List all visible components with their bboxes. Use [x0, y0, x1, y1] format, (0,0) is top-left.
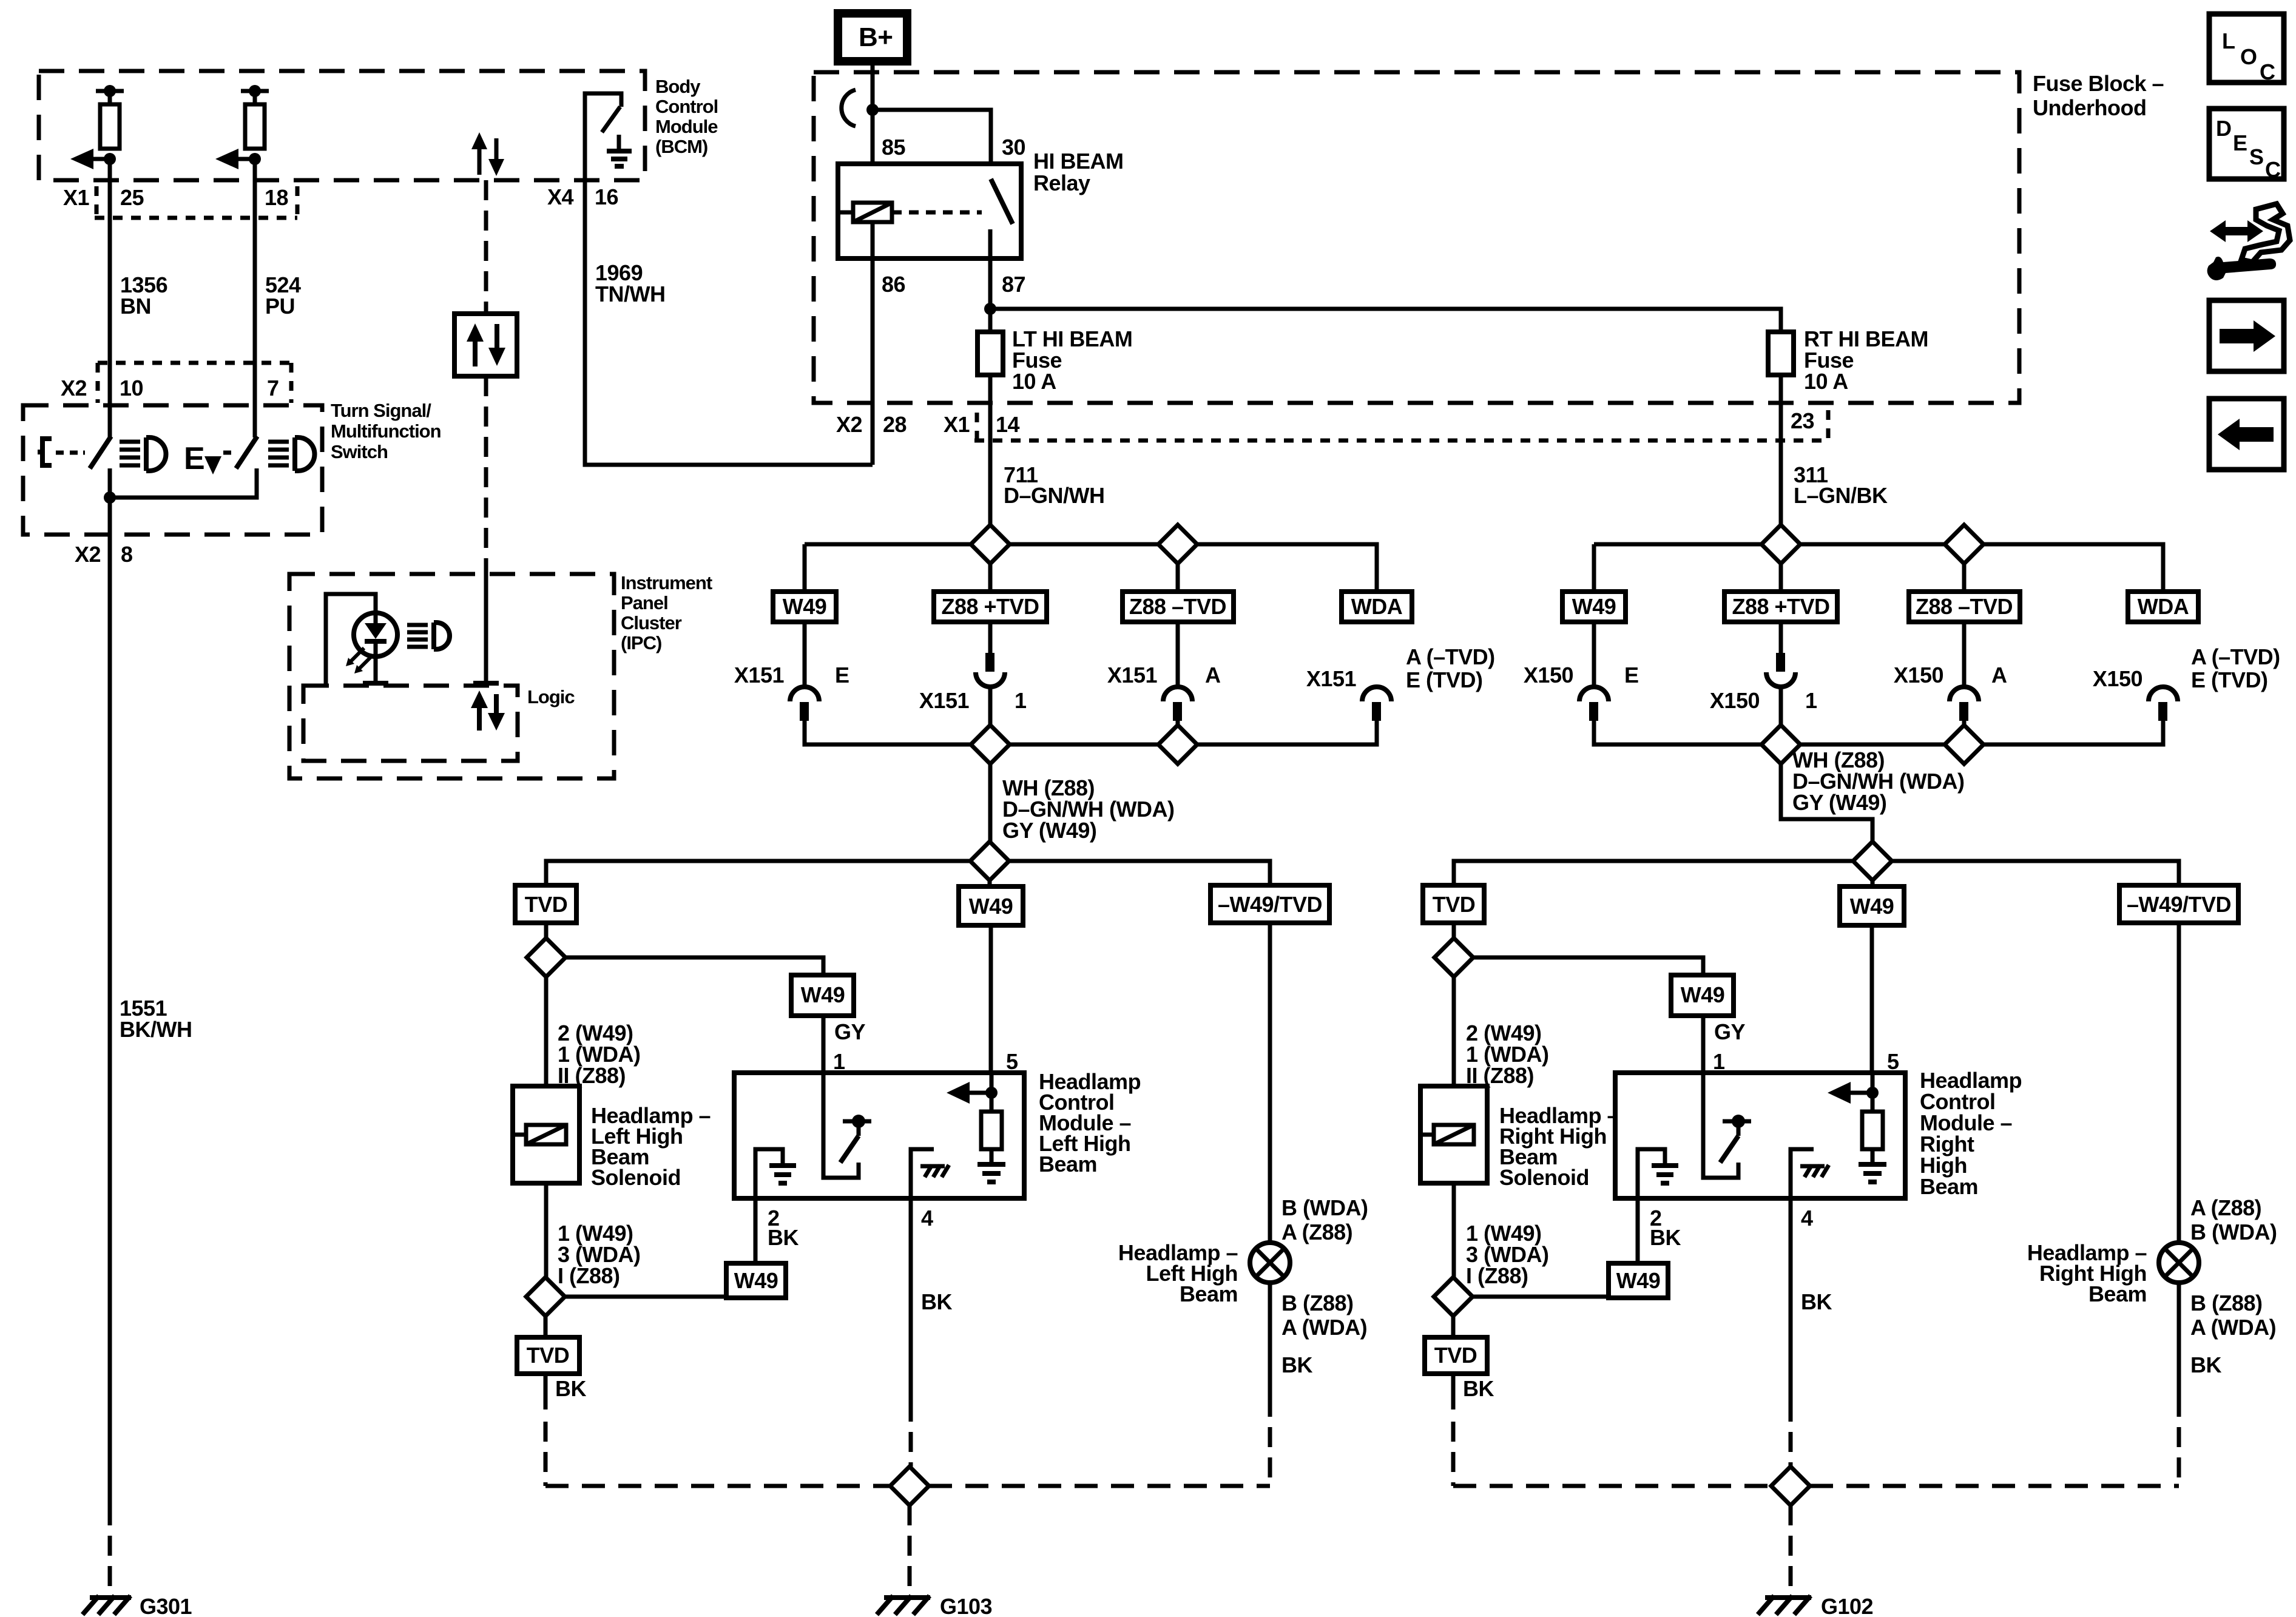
svg-text:B+: B+: [859, 22, 893, 52]
LT HI BEAM fuse: [977, 326, 1132, 394]
svg-text:Beam: Beam: [1920, 1174, 1978, 1199]
svg-text:Z88 +TVD: Z88 +TVD: [941, 594, 1039, 619]
svg-text:BK: BK: [1463, 1376, 1494, 1401]
resistor (BCM pin 18 pull-up): [241, 85, 269, 149]
svg-text:D–GN/WH: D–GN/WH: [1004, 483, 1105, 508]
svg-text:Panel: Panel: [621, 592, 668, 613]
wire W49 to module pin 1 right: [1701, 1016, 1706, 1073]
svg-text:85: 85: [882, 135, 906, 160]
bus wires lower: [805, 721, 1377, 744]
bus wires upper: [1594, 544, 2163, 622]
bus3 right: [1454, 861, 2179, 885]
bus wires upper: [805, 544, 1377, 622]
B+ feed box: [838, 13, 907, 61]
svg-text:W49: W49: [969, 894, 1013, 919]
wire -W49/TVD to lamp right: [2177, 923, 2181, 1243]
in-line connector X150-A: [1894, 663, 2007, 744]
switch blade 1 (high beam switch): [90, 436, 111, 498]
wire relay 87 down with splice: [984, 258, 996, 332]
svg-text:87: 87: [1002, 272, 1025, 297]
svg-text:D: D: [2216, 116, 2232, 141]
Fuse Block - Underhood dashed box: [814, 72, 2019, 403]
dashed link to switch 1: [56, 451, 85, 455]
svg-text:Relay: Relay: [1033, 170, 1090, 195]
svg-text:E: E: [184, 441, 205, 476]
svg-text:E: E: [835, 663, 849, 687]
wire solenoid down right: [1452, 1183, 1456, 1277]
Headlamp Right High Beam Solenoid box: [1420, 1086, 1487, 1183]
BCM label: [655, 76, 718, 157]
svg-text:A: A: [1205, 663, 1221, 687]
svg-text:BK: BK: [555, 1376, 586, 1401]
splice diamond G103 bus: [890, 1467, 929, 1505]
net box Z88 +TVD: [934, 592, 1047, 622]
svg-text:A (–TVD): A (–TVD): [2191, 644, 2280, 669]
svg-text:Cluster: Cluster: [621, 612, 682, 633]
boxed up-down arrow connector symbol: [454, 314, 517, 376]
label A (Z88) / B (WDA) right: [2190, 1195, 2277, 1244]
module label left: [1039, 1069, 1141, 1176]
switch blade 2 (flash switch): [236, 436, 257, 498]
svg-text:X151: X151: [1107, 663, 1158, 687]
svg-text:Module: Module: [655, 116, 718, 137]
svg-text:–W49/TVD: –W49/TVD: [2127, 892, 2231, 917]
arrow (BCM output pin 25): [70, 149, 116, 169]
wire to RT fuse: [990, 309, 1781, 332]
svg-text:(IPC): (IPC): [621, 632, 661, 653]
label 4 / BK right: [1801, 1206, 1832, 1314]
label 5 right: [1887, 1049, 1899, 1074]
label WH (Z88) D-GN/WH (WDA) GY (W49) left: [1002, 775, 1174, 843]
svg-text:A: A: [1991, 663, 2007, 687]
wire diamond R2 to TVD: [1451, 1316, 1456, 1337]
wire S1 down: [988, 564, 993, 653]
module internal ground (pin 2) right: [1638, 1149, 1678, 1198]
wire W49 box to connector right: [1592, 622, 1596, 688]
svg-text:Underhood: Underhood: [2033, 95, 2146, 120]
IPC label: [621, 572, 712, 653]
svg-text:W49: W49: [1572, 594, 1616, 619]
wire S7 down: [1962, 564, 1967, 688]
svg-text:Instrument: Instrument: [621, 572, 712, 593]
high beam indicator LED circuit loop: [326, 594, 388, 686]
LOC icon box: [2209, 14, 2284, 84]
wire lamp to ground bus: [1268, 1283, 1272, 1486]
svg-text:Beam: Beam: [2088, 1281, 2147, 1306]
splice diamond S10: [1853, 842, 1892, 880]
lamp name label right: [2027, 1240, 2147, 1306]
svg-text:7: 7: [267, 376, 279, 400]
splice diamond G102 bus: [1771, 1467, 1810, 1505]
svg-text:X151: X151: [734, 663, 785, 687]
wire splice to relay pin 30: [873, 110, 991, 180]
X2 pin 8 labels: [75, 542, 133, 567]
svg-text:X2: X2: [61, 376, 87, 400]
ground switch inside BCM (X4-16 driver): [585, 93, 632, 180]
svg-text:BK: BK: [768, 1225, 799, 1250]
svg-text:Z88 –TVD: Z88 –TVD: [1129, 594, 1226, 619]
svg-text:BK: BK: [2190, 1352, 2221, 1377]
relay name label: [1033, 149, 1124, 195]
wire 1551 BK/WH (switch to G301): [108, 498, 112, 1594]
svg-text:I (Z88): I (Z88): [558, 1263, 620, 1288]
Turn Signal/Multifunction Switch dashed box: [23, 405, 322, 535]
wire B+ to relay pin 85: [871, 61, 875, 203]
svg-text:GY: GY: [834, 1019, 866, 1044]
svg-text:L: L: [2222, 29, 2235, 53]
X1 band labels: [63, 185, 288, 210]
label 711 D-GN/WH: [1004, 462, 1105, 508]
svg-text:X1: X1: [63, 185, 90, 210]
net box WDA: [1342, 592, 1412, 622]
branch wire to W49 (BK) right: [1473, 1297, 1638, 1298]
label 1 (W49) 3 (WDA) I (Z88): [558, 1221, 640, 1288]
svg-text:B (WDA): B (WDA): [2190, 1220, 2277, 1244]
label 5: [1006, 1049, 1018, 1074]
wire W49 box to module pin 5 right: [1870, 925, 1874, 1073]
RT HI BEAM fuse: [1768, 326, 1928, 394]
svg-text:E (TVD): E (TVD): [2191, 667, 2268, 692]
net box W49 (BK splice): [726, 1263, 786, 1298]
svg-text:X150: X150: [1894, 663, 1943, 687]
wire LT fuse down: [988, 375, 993, 544]
connector band X1 (pins 25 / 18): [95, 186, 297, 218]
svg-text:WDA: WDA: [2138, 594, 2189, 619]
dashed link to switch 2: [223, 451, 236, 455]
splice diamond L2: [526, 1277, 565, 1316]
svg-text:G103: G103: [940, 1594, 992, 1617]
svg-text:4: 4: [1801, 1206, 1813, 1230]
high beam lamp icon (IPC): [407, 623, 450, 649]
Logic label: [527, 686, 575, 707]
HI BEAM Relay box: [838, 164, 1021, 258]
module label right: [1920, 1068, 2022, 1199]
bracket contact: [38, 439, 52, 465]
net box W49 (BK splice) right: [1609, 1263, 1668, 1298]
wire S5 to W49 box: [988, 880, 992, 886]
svg-text:5: 5: [1006, 1049, 1018, 1074]
net box W49 (GY) right: [1671, 975, 1734, 1016]
svg-text:Fuse Block –: Fuse Block –: [2033, 71, 2164, 96]
label 1 (W49) 3 (WDA) I (Z88) right: [1466, 1221, 1548, 1288]
svg-text:BN: BN: [120, 294, 151, 319]
svg-text:Body: Body: [655, 76, 701, 97]
svg-text:X2: X2: [75, 542, 101, 567]
ground G102: [1758, 1594, 1873, 1617]
svg-text:Control: Control: [655, 96, 718, 117]
dashed wire diamond to G102: [1789, 1505, 1793, 1594]
wire relay 86 down: [871, 222, 875, 465]
svg-text:E: E: [2233, 130, 2247, 155]
svg-text:–W49/TVD: –W49/TVD: [1218, 892, 1322, 917]
ground G301: [83, 1594, 192, 1617]
net box TVD (BK) right: [1425, 1337, 1487, 1374]
svg-text:A (Z88): A (Z88): [1281, 1220, 1352, 1244]
splice diamond S4: [1158, 725, 1197, 764]
svg-text:1: 1: [1713, 1049, 1725, 1074]
module internal resistor (pin 5): [947, 1073, 1005, 1182]
relay coil: [838, 203, 892, 222]
label B (Z88) / A (WDA) / BK: [1281, 1291, 1367, 1377]
svg-text:(BCM): (BCM): [655, 136, 707, 157]
Headlamp Left High Beam Solenoid box: [513, 1086, 579, 1183]
svg-text:GY (W49): GY (W49): [1792, 790, 1886, 815]
DESC icon box: [2209, 109, 2284, 182]
wire diamond to solenoid: [544, 977, 549, 1086]
next page arrow icon: [2209, 300, 2284, 371]
wire S8 down with jog to S10: [1781, 764, 1872, 861]
wire W49 box to connector: [803, 622, 807, 688]
wire -W49/TVD to lamp: [1268, 923, 1272, 1243]
crimp splice arc: [842, 90, 856, 126]
svg-text:16: 16: [595, 184, 618, 209]
svg-text:G301: G301: [140, 1594, 192, 1617]
svg-text:A (–TVD): A (–TVD): [1406, 644, 1495, 669]
svg-text:W49: W49: [1850, 894, 1894, 919]
svg-text:X2: X2: [836, 412, 862, 437]
splice diamond S9: [1945, 725, 1984, 764]
wire lamp to ground bus right: [2177, 1283, 2181, 1486]
svg-text:10: 10: [120, 376, 143, 400]
in-line connector X150 (WDA right): [2093, 644, 2280, 721]
up-down arrows (logic): [471, 690, 505, 731]
branch to W49 (GY wire) right: [1473, 957, 1703, 975]
svg-text:BK: BK: [1281, 1352, 1312, 1377]
splice diamond L1: [527, 938, 566, 977]
svg-text:18: 18: [265, 185, 288, 210]
svg-text:HI BEAM: HI BEAM: [1033, 149, 1124, 174]
svg-text:X151: X151: [1306, 666, 1357, 691]
in-line connector X150-1: [1710, 653, 1817, 744]
svg-text:S: S: [2249, 144, 2264, 169]
svg-text:30: 30: [1002, 135, 1025, 160]
svg-text:TVD: TVD: [527, 1343, 570, 1368]
up-down arrows (serial data, inside BCM): [471, 132, 504, 176]
X2 band labels: [61, 376, 279, 400]
wire TVD to diamond: [544, 923, 549, 938]
wire joining switch outputs: [104, 468, 257, 504]
connector band X2 (pins 10 / 7): [98, 363, 291, 403]
connector band X1 (fuse block outputs): [974, 410, 1828, 441]
net box W49 (GY): [791, 975, 854, 1016]
serial data line into logic (solid): [473, 574, 499, 683]
svg-text:25: 25: [120, 185, 144, 210]
svg-text:WDA: WDA: [1351, 594, 1403, 619]
svg-text:Z88 –TVD: Z88 –TVD: [1916, 594, 2013, 619]
svg-text:1: 1: [1805, 688, 1817, 713]
wire module pin 2 down right: [1636, 1198, 1640, 1263]
svg-text:BK: BK: [1801, 1289, 1832, 1314]
label 4 / BK: [921, 1206, 952, 1314]
splice diamond S6: [1761, 525, 1800, 564]
net box Z88 +TVD right: [1724, 592, 1837, 622]
ground bus G102 (dashed): [1453, 1484, 2179, 1488]
svg-text:GY: GY: [1714, 1019, 1746, 1044]
wire S10 to W49 box: [1871, 880, 1875, 886]
svg-text:C: C: [2260, 59, 2275, 84]
label GY / 1 right: [1713, 1019, 1746, 1074]
net box Z88 -TVD: [1123, 592, 1234, 622]
svg-text:TVD: TVD: [1434, 1343, 1477, 1368]
svg-text:B (Z88): B (Z88): [2190, 1291, 2263, 1315]
module internal switch (pin 1): [823, 1073, 871, 1178]
svg-text:X4: X4: [547, 184, 574, 209]
svg-text:10 A: 10 A: [1804, 369, 1848, 394]
label 2 (W49) 1 (WDA) II (Z88): [558, 1021, 640, 1088]
svg-text:BK: BK: [1650, 1225, 1681, 1250]
svg-text:Z88 +TVD: Z88 +TVD: [1732, 594, 1829, 619]
splice diamond S1: [971, 525, 1010, 564]
svg-text:I (Z88): I (Z88): [1466, 1263, 1528, 1288]
in-line connector X151-1: [919, 653, 1027, 744]
bus wires lower: [1594, 721, 2163, 744]
splice diamond S7: [1945, 525, 1984, 564]
Body Control Module (BCM) dashed box: [39, 71, 645, 180]
splice diamond R2: [1434, 1277, 1473, 1316]
svg-text:Beam: Beam: [1180, 1281, 1238, 1306]
svg-text:BK: BK: [921, 1289, 952, 1314]
svg-text:O: O: [2240, 44, 2257, 69]
svg-text:W49: W49: [1681, 982, 1725, 1007]
high beam lamp icon 2: [268, 437, 315, 471]
fuse block pin labels: [836, 408, 1814, 437]
svg-text:8: 8: [121, 542, 133, 567]
label 2 / BK right: [1650, 1206, 1681, 1250]
label B (WDA) / A (Z88): [1281, 1195, 1368, 1244]
net box W49 lower right: [1840, 886, 1904, 925]
Instrument Panel Cluster (IPC) dashed box: [289, 574, 614, 778]
splice diamond R1: [1434, 938, 1473, 977]
svg-text:Beam: Beam: [1039, 1152, 1097, 1176]
arrow (BCM output pin 18): [215, 149, 261, 169]
svg-text:E: E: [1624, 663, 1639, 687]
wire module pin 4 to ground bus right: [1789, 1198, 1793, 1467]
svg-text:28: 28: [883, 412, 907, 437]
lamp name label: [1118, 1240, 1238, 1306]
in-line connector X151-A: [1107, 663, 1221, 744]
svg-text:X1: X1: [944, 412, 970, 437]
module internal chassis ground (pin 4): [911, 1149, 949, 1198]
svg-text:W49: W49: [1616, 1268, 1661, 1293]
splice diamond S3: [971, 725, 1010, 764]
svg-text:14: 14: [996, 412, 1020, 437]
wire TVD to ground bus: [544, 1374, 548, 1486]
net box -W49/TVD right: [2119, 885, 2238, 923]
svg-text:X150: X150: [1524, 663, 1573, 687]
dashed serial data wire (BCM to IPC): [484, 180, 488, 574]
relay coil-contact dashed link: [892, 211, 982, 215]
branch wire to W49 (BK): [565, 1297, 755, 1298]
in-line connector X151-E: [734, 663, 849, 721]
dashed wire diamond to G103: [908, 1505, 912, 1594]
svg-text:W49: W49: [734, 1268, 778, 1293]
svg-text:23: 23: [1791, 408, 1814, 433]
svg-text:Multifunction: Multifunction: [331, 420, 441, 442]
wire W49 to module pin 1: [822, 1016, 826, 1073]
svg-text:B (Z88): B (Z88): [1281, 1291, 1354, 1315]
label 1551 BK/WH: [120, 996, 192, 1042]
svg-text:TVD: TVD: [1433, 892, 1476, 917]
switch name label: [331, 400, 441, 462]
label 2 (W49) 1 (WDA) II (Z88) right: [1466, 1021, 1548, 1088]
Logic dashed box: [303, 686, 518, 761]
relay contact blade: [990, 179, 1013, 258]
label 311 L-GN/BK: [1794, 462, 1888, 508]
wire diamond to solenoid right: [1452, 977, 1456, 1086]
module internal chassis ground (pin 4) right: [1791, 1149, 1829, 1198]
wire module pin 4 to ground bus: [909, 1198, 913, 1467]
svg-text:BK/WH: BK/WH: [120, 1017, 192, 1042]
label BK (TVD) right: [1463, 1376, 1494, 1401]
X4 pin 16 labels: [547, 184, 618, 209]
wire S2 down: [1176, 564, 1180, 688]
svg-text:G102: G102: [1821, 1594, 1873, 1617]
svg-text:W49: W49: [801, 982, 845, 1007]
splice diamond S2: [1158, 525, 1197, 564]
svg-text:X150: X150: [1710, 688, 1760, 713]
svg-text:W49: W49: [783, 594, 827, 619]
label 1356 BN: [120, 272, 167, 319]
label 1969 TN/WH: [595, 260, 665, 306]
svg-text:1: 1: [833, 1049, 845, 1074]
solenoid label: [591, 1103, 711, 1190]
wire 524 PU (pin 18 to switch): [253, 159, 257, 437]
previous page arrow icon: [2209, 399, 2284, 470]
Headlamp Control Module - Left High Beam box: [734, 1073, 1024, 1198]
wire module pin 2 down: [754, 1198, 758, 1263]
in-line connector X151 (WDA): [1306, 644, 1495, 721]
Headlamp - Right High Beam lamp: [2159, 1243, 2199, 1283]
svg-text:4: 4: [921, 1206, 933, 1230]
svg-text:X151: X151: [919, 688, 970, 713]
ground bus G103 (dashed): [545, 1484, 1270, 1488]
wire diamond L2 to TVD: [544, 1316, 548, 1337]
svg-text:1: 1: [1015, 688, 1027, 713]
label 2 / BK: [768, 1206, 799, 1250]
svg-text:E (TVD): E (TVD): [1406, 667, 1483, 692]
module internal resistor (pin 5) right: [1828, 1073, 1886, 1182]
net box W49 right: [1562, 592, 1626, 622]
LED indicator (circle, diode, emission arrows): [346, 613, 397, 673]
label GY / 1: [833, 1019, 866, 1074]
svg-text:PU: PU: [265, 294, 295, 319]
label BK (TVD): [555, 1376, 586, 1401]
Headlamp - Left High Beam lamp: [1250, 1243, 1290, 1283]
svg-text:A (Z88): A (Z88): [2190, 1195, 2261, 1220]
module internal ground (pin 2): [755, 1149, 796, 1198]
resistor (BCM pin 25 pull-up): [96, 85, 124, 149]
wire TVD to ground bus right: [1451, 1374, 1456, 1486]
flash-to-pass symbol Ev: [184, 441, 221, 476]
wire solenoid down: [544, 1183, 549, 1277]
svg-text:5: 5: [1887, 1049, 1899, 1074]
high beam lamp icon 1: [120, 437, 166, 471]
net box W49 lower left: [959, 886, 1023, 925]
Headlamp Control Module - Right High Beam box: [1615, 1073, 1905, 1198]
wire 1356 BN (pin 25 to switch): [108, 159, 112, 437]
svg-text:Solenoid: Solenoid: [1499, 1165, 1589, 1190]
label 524 PU: [265, 272, 301, 319]
wire S6 down: [1779, 564, 1783, 653]
svg-text:L–GN/BK: L–GN/BK: [1794, 483, 1888, 508]
wire S3 down to S5: [988, 764, 993, 861]
net box TVD right: [1423, 885, 1484, 923]
splice diamond S5: [970, 842, 1009, 880]
component view icon (arrow, outline, wrench): [2207, 204, 2290, 280]
label WH (Z88) D-GN/WH (WDA) GY (W49) right: [1792, 748, 1964, 815]
wire TVD to diamond right: [1452, 923, 1456, 938]
ground G103: [877, 1594, 992, 1617]
